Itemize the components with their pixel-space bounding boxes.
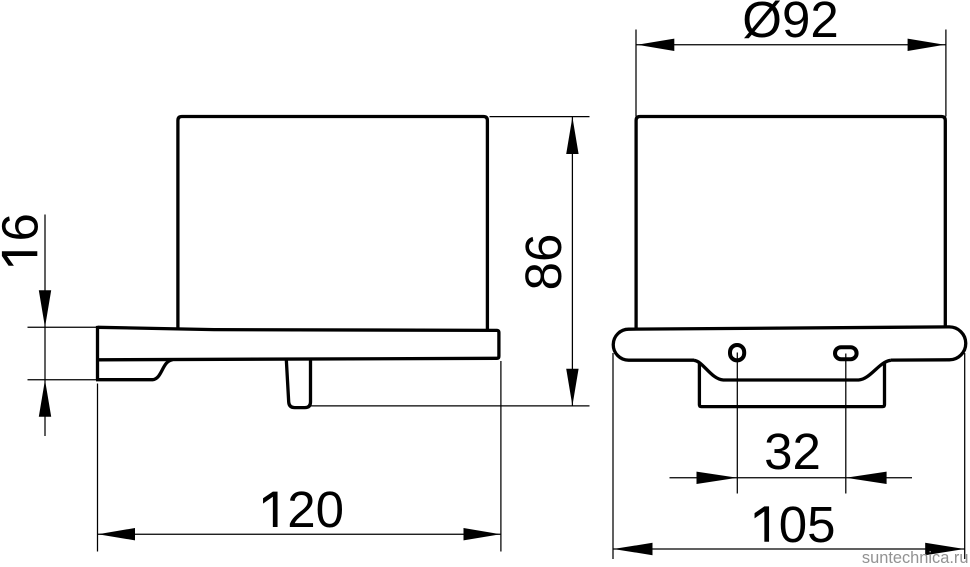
screw tab pin (side view) (286, 359, 310, 407)
dim 86 arrowhead top (points up) (566, 117, 578, 154)
dim label 120 (263, 492, 278, 527)
flange silhouette curves (front view) (694, 360, 891, 380)
dim 32 arrowhead left (outside, points right) (697, 472, 738, 484)
dim 105 extension line left (612, 353, 614, 559)
svg-text:05: 05 (779, 496, 836, 553)
dim diameter 92 extension line right (945, 30, 947, 117)
dim 120 arrowhead left (points left) (98, 528, 135, 540)
dim 16 arrowhead upper (points down) (39, 290, 51, 327)
wall flange left edge (side view) (96, 326, 99, 380)
dim 32 dimension line (670, 477, 913, 479)
dim 16 dimension line (44, 215, 46, 437)
cup (front view, right) (636, 117, 945, 330)
dim label 16 (0, 213, 48, 266)
screw tab (front view) (699, 362, 884, 406)
holder plate top edge (side view) (98, 327, 499, 360)
left mounting hole (730, 345, 744, 360)
dim 86 extension line bottom (311, 405, 590, 407)
dim 120 dimension line (98, 533, 501, 535)
svg-text:32: 32 (764, 423, 821, 480)
dim diameter 92 arrowhead right (points right) (908, 39, 945, 51)
dim 105 dimension line (613, 548, 964, 550)
dim 16 extension line top (28, 326, 97, 328)
dim diameter 92 arrowhead left (points left) (637, 39, 674, 51)
dim 86 dimension line (571, 117, 573, 406)
wall flange bottom lip (side view) (96, 360, 173, 380)
dim 16 extension line bottom (28, 379, 97, 381)
dim label 105 (755, 506, 770, 541)
dim 32 extension line right (845, 354, 847, 494)
dim 32 extension line left (736, 353, 738, 494)
cup (side view, left) (178, 117, 488, 331)
svg-text:6: 6 (0, 213, 48, 241)
dim 16 arrowhead lower (points up) (39, 380, 51, 417)
svg-text:20: 20 (287, 481, 344, 538)
dim 120 extension line right (500, 361, 502, 552)
svg-text:suntechnica.ru: suntechnica.ru (862, 549, 969, 567)
dim diameter 92 dimension line (636, 44, 946, 46)
dim 32 arrowhead right (outside, points left) (846, 472, 887, 484)
dim diameter 92 extension line left (635, 30, 637, 117)
dim 120 arrowhead right (points right) (464, 528, 501, 540)
svg-text:Ø92: Ø92 (742, 0, 838, 48)
dim 86 extension line top (490, 116, 590, 118)
right mounting hole (slot) (835, 347, 857, 359)
svg-text:86: 86 (515, 234, 572, 291)
dim 105 extension line right (964, 353, 966, 559)
dim 86 arrowhead bottom (points down) (566, 369, 578, 406)
dim 120 extension line left (97, 384, 99, 552)
holder plate stadium (front view) (613, 327, 966, 360)
dim 105 arrowhead left (points left) (613, 543, 652, 555)
dim 105 arrowhead right (points right) (925, 543, 964, 555)
